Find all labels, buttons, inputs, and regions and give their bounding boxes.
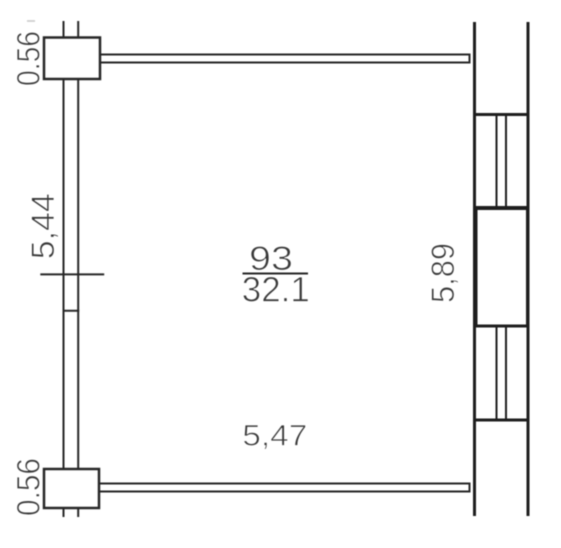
svg-text:5,44: 5,44 [25,193,61,259]
svg-text:32.1: 32.1 [242,271,310,310]
svg-text:0.56: 0.56 [11,31,47,86]
svg-text:5,47: 5,47 [242,420,307,453]
svg-text:5,89: 5,89 [425,243,461,303]
svg-text:0.56: 0.56 [11,458,47,516]
